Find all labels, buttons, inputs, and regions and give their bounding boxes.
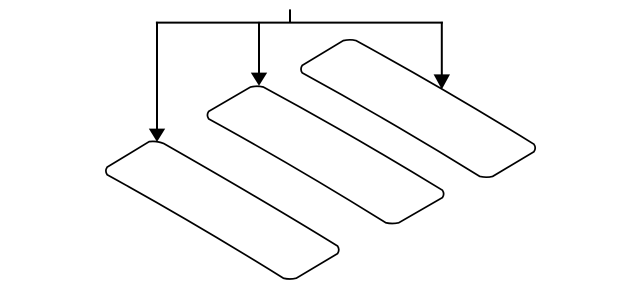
wire: horizontal connector	[156, 22, 443, 24]
wire: top stub	[289, 9, 291, 22]
arrowhead 1	[149, 129, 165, 142]
rounded box 2 (middle)	[207, 86, 443, 223]
arrowhead 3	[434, 74, 450, 89]
wire: middle drop	[258, 22, 260, 74]
wire: left drop	[156, 22, 158, 130]
rounded box 3 (top-right)	[301, 40, 535, 177]
wire: right drop	[441, 22, 443, 76]
arrowhead 2	[251, 73, 267, 86]
rounded box 1 (bottom-left)	[106, 141, 339, 279]
